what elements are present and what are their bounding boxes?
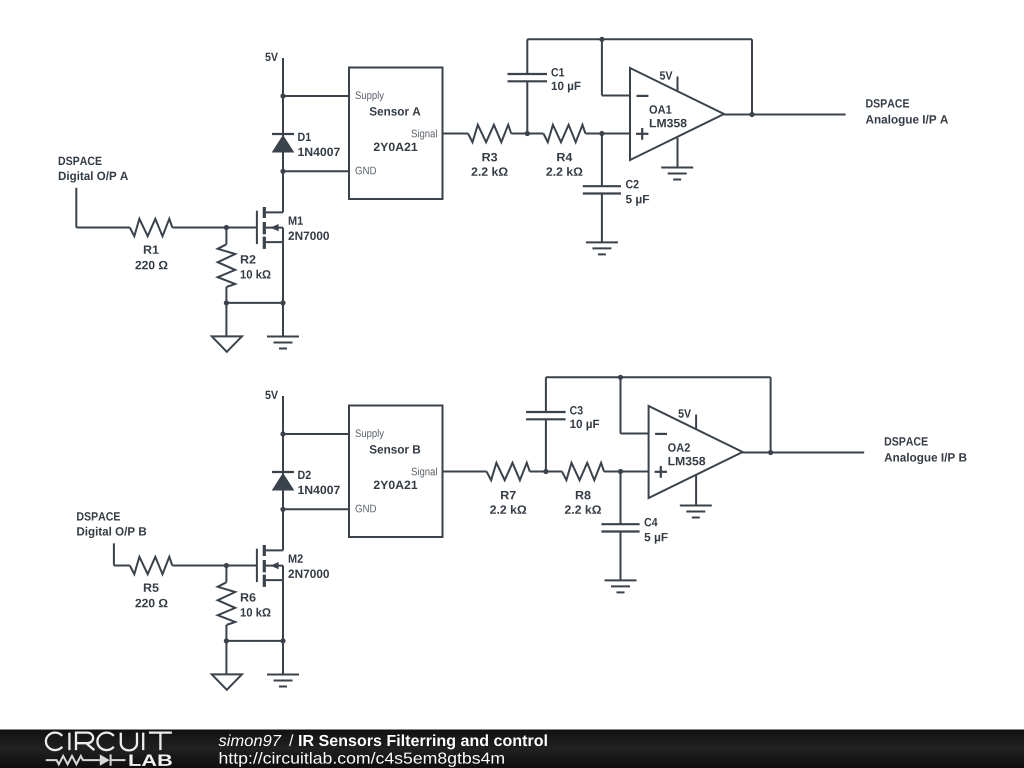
node DSPACE Analogue I/P A label — [866, 99, 909, 108]
diode D2 — [272, 471, 294, 473]
node gate junction — [224, 225, 229, 230]
logo resistor — [46, 756, 100, 764]
node DSPACE Analogue I/P B label — [885, 437, 928, 446]
node 5V op-amp supply — [695, 415, 697, 430]
diode D1 — [272, 133, 294, 135]
wire input stub — [75, 188, 77, 228]
wire signal out of sensor — [443, 133, 469, 135]
wire gnd pin — [283, 170, 349, 172]
wire gate — [172, 565, 257, 567]
wire R4 to op-amp — [585, 133, 630, 135]
node gnd-pin junction — [280, 507, 285, 512]
ground (triangle) — [225, 303, 227, 337]
node C2 tap — [618, 469, 623, 474]
ground (earth) under C2 — [586, 241, 618, 243]
node 5V op-amp supply — [677, 77, 679, 92]
node source/gnd junction — [224, 300, 229, 305]
wire supply pin — [283, 95, 349, 97]
wire feedback top — [527, 38, 752, 40]
wire gnd pin — [283, 508, 349, 510]
ground (earth) op-amp — [677, 137, 679, 168]
node C1 tap — [543, 469, 548, 474]
resistor R2 — [225, 228, 227, 245]
CircuitLab logo CIRCUIT — [46, 733, 172, 751]
op-amp OA2 LM358 — [649, 406, 743, 498]
node gnd-pin junction — [280, 169, 285, 174]
wire supply pin — [283, 433, 349, 435]
ground (earth) under C2 — [605, 579, 637, 581]
wire 5V rail — [282, 396, 284, 550]
ground (earth) — [282, 641, 284, 675]
wire ground link — [226, 302, 283, 304]
resistor R7 — [487, 463, 530, 480]
resistor R8 — [562, 463, 604, 480]
IC UA Sensor A 2Y0A21 — [349, 68, 443, 200]
node source/gnd junction — [224, 638, 229, 643]
node gate junction — [224, 563, 229, 568]
wire inverting input — [620, 377, 622, 433]
capacitor C3 — [545, 377, 547, 412]
node C1 tap — [525, 131, 530, 136]
IC UB Sensor B 2Y0A21 — [349, 406, 443, 538]
wire signal out of sensor — [443, 471, 487, 473]
wire inverting input — [601, 39, 603, 95]
wire R4 to op-amp — [604, 471, 649, 473]
node 5V — [265, 53, 278, 61]
ground (earth) op-amp — [695, 475, 697, 506]
capacitor C1 — [526, 39, 528, 74]
wire output — [724, 114, 846, 116]
wire R3-R4 — [511, 133, 543, 135]
wire feedback top — [546, 376, 771, 378]
footer url — [220, 752, 504, 767]
CircuitLab logo LAB — [129, 755, 171, 766]
wire input stub — [113, 543, 115, 565]
wire R3-R4 — [530, 471, 562, 473]
node DSPACE Digital O/P A label — [59, 157, 102, 166]
capacitor C2 — [601, 134, 603, 187]
resistor R1 — [130, 219, 173, 236]
resistor R4 — [543, 125, 585, 142]
node feedback junction — [749, 112, 754, 117]
node supply junction — [280, 431, 285, 436]
node feedback junction — [768, 450, 773, 455]
transistor M1 2N7000 — [256, 211, 258, 244]
wire output — [743, 452, 865, 454]
node supply junction — [280, 93, 285, 98]
node C2 tap — [599, 131, 604, 136]
wire 5V rail — [282, 58, 284, 212]
ground (earth) — [282, 303, 284, 337]
transistor M2 2N7000 — [256, 549, 258, 582]
footer title — [219, 734, 282, 746]
logo diode — [100, 754, 110, 765]
node DSPACE Digital O/P B label — [77, 512, 120, 521]
node 5V — [265, 391, 278, 399]
resistor R3 — [468, 125, 511, 142]
wire ground link — [226, 640, 283, 642]
op-amp OA1 LM358 — [630, 68, 724, 160]
ground (triangle) — [225, 641, 227, 675]
wire gate — [172, 227, 257, 229]
capacitor C4 — [620, 472, 622, 525]
resistor R5 — [130, 557, 173, 574]
resistor R6 — [225, 566, 227, 583]
